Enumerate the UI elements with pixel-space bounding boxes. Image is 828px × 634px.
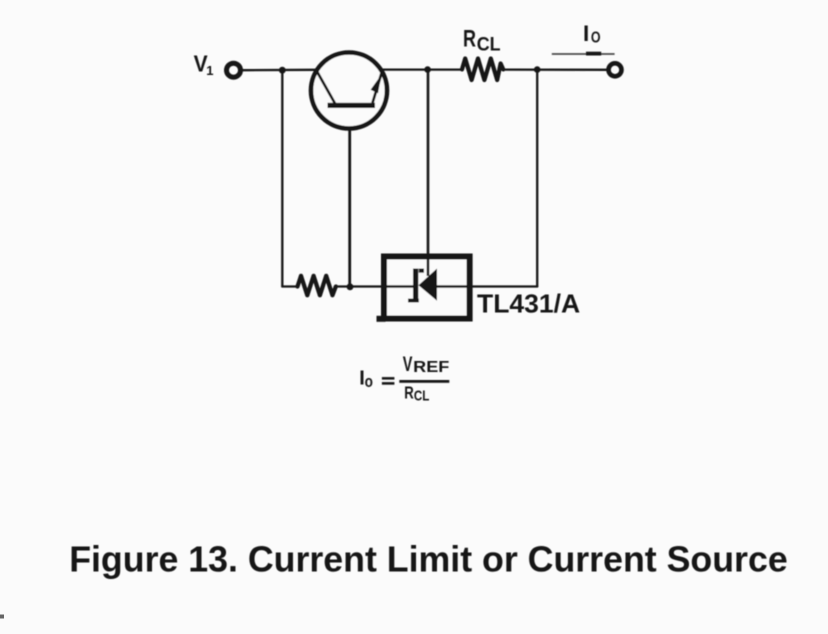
svg-text:R: R bbox=[463, 27, 476, 53]
svg-text:TL431/A: TL431/A bbox=[477, 289, 580, 319]
svg-text:I: I bbox=[583, 21, 589, 46]
svg-text:Figure 13. Current Limit or Cu: Figure 13. Current Limit or Current Sour… bbox=[69, 540, 788, 580]
svg-text:REF: REF bbox=[413, 359, 449, 376]
svg-text:CL: CL bbox=[414, 388, 430, 405]
svg-text:CL: CL bbox=[477, 34, 501, 56]
svg-text:V: V bbox=[403, 353, 413, 376]
svg-text:o: o bbox=[365, 372, 373, 391]
svg-text:R: R bbox=[404, 383, 414, 403]
svg-text:1: 1 bbox=[206, 63, 213, 78]
svg-text:O: O bbox=[591, 30, 601, 47]
